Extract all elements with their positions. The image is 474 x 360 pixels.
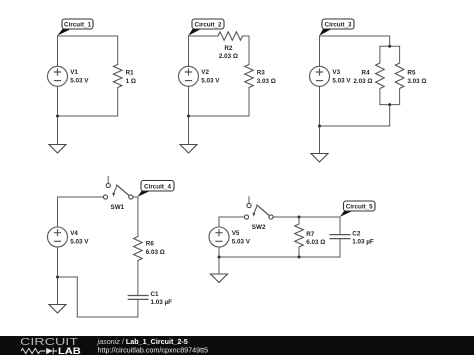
junction Circuit_4 ground node xyxy=(56,276,59,279)
wire top drop Circuit_3 xyxy=(389,36,391,46)
svg-text:Circuit_2: Circuit_2 xyxy=(195,22,222,29)
resistor R5 xyxy=(395,63,404,89)
capacitor C2 xyxy=(330,235,351,239)
wire left bottom Circuit_2 xyxy=(188,86,190,116)
svg-text:http://circuitlab.com/cpxnc897: http://circuitlab.com/cpxnc89749tt5 xyxy=(98,346,209,355)
svg-text:3.03 Ω: 3.03 Ω xyxy=(407,78,426,85)
ground Circuit_2 xyxy=(180,145,197,154)
svg-text:V3: V3 xyxy=(332,69,340,76)
wire bottom of Circuit_4 xyxy=(77,316,138,318)
wire top left Circuit_4 xyxy=(58,196,104,198)
wire right top Circuit_2 xyxy=(248,36,250,65)
wire left bottom Circuit_3 xyxy=(319,86,321,126)
svg-text:SW2: SW2 xyxy=(252,224,266,231)
svg-text:C1: C1 xyxy=(151,291,160,298)
wire right top Circuit_1 xyxy=(117,36,119,65)
ground Circuit_1 xyxy=(49,145,66,154)
wire right bottom Circuit_2 xyxy=(248,88,250,117)
wire R4 bottom lead xyxy=(379,89,381,105)
wire left top Circuit_3 xyxy=(319,36,321,66)
node label Circuit_1 xyxy=(57,19,93,36)
wire R6 to C1 xyxy=(137,261,139,296)
wire parallel top bar Circuit_3 xyxy=(380,45,400,47)
svg-text:1.03 µF: 1.03 µF xyxy=(151,299,173,306)
wire R7 top lead xyxy=(298,217,300,224)
resistor R1 xyxy=(113,65,122,88)
junction Circuit_3 parallel bottom xyxy=(388,103,391,106)
wire R7 bottom lead xyxy=(298,247,300,257)
wire bottom left riser Circuit_4 xyxy=(76,277,78,317)
svg-text:6.03 Ω: 6.03 Ω xyxy=(306,239,325,246)
svg-text:V4: V4 xyxy=(70,230,78,237)
wire C1 bottom lead xyxy=(137,299,139,317)
svg-text:2.03 Ω: 2.03 Ω xyxy=(219,53,238,60)
svg-text:1.03 µF: 1.03 µF xyxy=(352,239,374,246)
wire top right Circuit_2 xyxy=(243,35,250,37)
wire SW1 common to branch xyxy=(133,196,138,198)
wire bottom drop Circuit_3 xyxy=(389,105,391,126)
wire left top Circuit_1 xyxy=(57,36,59,66)
voltage source V2 xyxy=(179,66,199,86)
svg-text:5.03 V: 5.03 V xyxy=(232,238,251,245)
junction Circuit_5 ground node xyxy=(218,256,221,259)
node label Circuit_5 xyxy=(340,201,375,217)
svg-text:V2: V2 xyxy=(201,69,209,76)
voltage source V4 xyxy=(48,227,68,247)
svg-text:R1: R1 xyxy=(126,69,135,76)
svg-text:5.03 V: 5.03 V xyxy=(332,78,351,85)
wire bottom of Circuit_5 xyxy=(219,256,340,258)
svg-text:R3: R3 xyxy=(257,69,266,76)
junction Circuit_3 parallel top xyxy=(388,45,391,48)
wire junction link Circuit_4 xyxy=(58,276,78,278)
wire R5 top lead xyxy=(399,46,401,63)
svg-text:Circuit_4: Circuit_4 xyxy=(144,184,171,191)
svg-text:6.03 Ω: 6.03 Ω xyxy=(146,249,165,256)
resistor R4 xyxy=(376,63,385,89)
wire R4 top lead xyxy=(379,46,381,63)
switch SW2 xyxy=(244,203,273,219)
node label Circuit_3 xyxy=(319,19,354,36)
wire right bottom Circuit_1 xyxy=(117,88,119,117)
svg-text:3.03 Ω: 3.03 Ω xyxy=(257,78,276,85)
svg-text:LAB: LAB xyxy=(58,346,81,355)
wire bottom of Circuit_3 xyxy=(320,125,390,127)
switch SW1 xyxy=(103,183,132,199)
wire ground stub Circuit_5 xyxy=(218,257,220,274)
svg-text:V1: V1 xyxy=(70,69,78,76)
wire bottom of Circuit_2 xyxy=(189,115,250,117)
svg-text:Circuit_5: Circuit_5 xyxy=(346,204,373,211)
wire top of Circuit_3 xyxy=(320,35,390,37)
svg-text:R7: R7 xyxy=(306,231,315,238)
wire ground stub Circuit_3 xyxy=(319,126,321,154)
wire ground stub Circuit_4 xyxy=(57,277,59,305)
junction Circuit_5 R7 bottom xyxy=(298,256,301,259)
ground Circuit_3 xyxy=(311,154,328,163)
wire R5 bottom lead xyxy=(399,89,401,105)
footer logo resistor xyxy=(21,348,46,353)
footer logo diode xyxy=(46,348,53,354)
wire left Circuit_4 xyxy=(57,197,59,227)
wire SW2 common to C2 xyxy=(273,216,340,218)
ground Circuit_4 xyxy=(49,305,66,314)
wire C2 top lead xyxy=(339,217,341,235)
wire V4 bottom lead xyxy=(57,247,59,277)
svg-text:5.03 V: 5.03 V xyxy=(70,78,89,85)
resistor R6 xyxy=(134,237,143,261)
wire top of Circuit_1 xyxy=(58,35,118,37)
capacitor C1 xyxy=(128,296,149,300)
junction Circuit_1 bottom xyxy=(56,115,59,118)
wire ground stub Circuit_2 xyxy=(188,116,190,145)
wire V5 bottom lead xyxy=(218,247,220,257)
ground Circuit_5 xyxy=(211,274,228,283)
junction Circuit_5 R7 top xyxy=(298,216,301,219)
wire bottom of Circuit_1 xyxy=(58,115,118,117)
svg-text:2.03 Ω: 2.03 Ω xyxy=(353,78,372,85)
svg-text:R4: R4 xyxy=(362,69,371,76)
wire R6 top lead xyxy=(137,197,139,237)
voltage source V3 xyxy=(310,66,330,86)
svg-text:R5: R5 xyxy=(407,69,416,76)
voltage source V1 xyxy=(48,66,68,86)
svg-text:SW1: SW1 xyxy=(111,204,125,211)
footer bar xyxy=(0,336,474,355)
wire parallel bottom bar Circuit_3 xyxy=(380,104,400,106)
resistor R3 xyxy=(245,65,254,88)
svg-text:C2: C2 xyxy=(352,231,361,238)
voltage source V5 xyxy=(209,227,229,247)
svg-text:V5: V5 xyxy=(232,230,240,237)
svg-text:5.03 V: 5.03 V xyxy=(70,238,89,245)
wire SW1 upper throw stub xyxy=(107,177,109,184)
svg-text:5.03 V: 5.03 V xyxy=(201,78,220,85)
wire V5 top lead xyxy=(218,217,220,227)
wire SW2 upper throw stub xyxy=(248,197,250,204)
junction Circuit_3 bottom xyxy=(318,125,321,128)
resistor R2 xyxy=(218,32,243,40)
wire top left Circuit_2 xyxy=(189,35,219,37)
svg-text:1 Ω: 1 Ω xyxy=(126,78,136,85)
wire ground stub Circuit_1 xyxy=(57,116,59,145)
wire top left Circuit_5 xyxy=(219,216,244,218)
svg-text:Circuit_3: Circuit_3 xyxy=(325,22,352,29)
node label Circuit_2 xyxy=(188,19,224,36)
svg-text:Circuit_1: Circuit_1 xyxy=(64,22,91,29)
wire left bottom Circuit_1 xyxy=(57,86,59,116)
node label Circuit_4 xyxy=(138,181,174,197)
junction Circuit_2 bottom xyxy=(187,115,190,118)
resistor R7 xyxy=(295,224,304,247)
svg-text:R2: R2 xyxy=(224,45,233,52)
wire C2 bottom lead xyxy=(339,239,341,257)
svg-text:R6: R6 xyxy=(146,240,155,247)
wire left top Circuit_2 xyxy=(188,36,190,66)
